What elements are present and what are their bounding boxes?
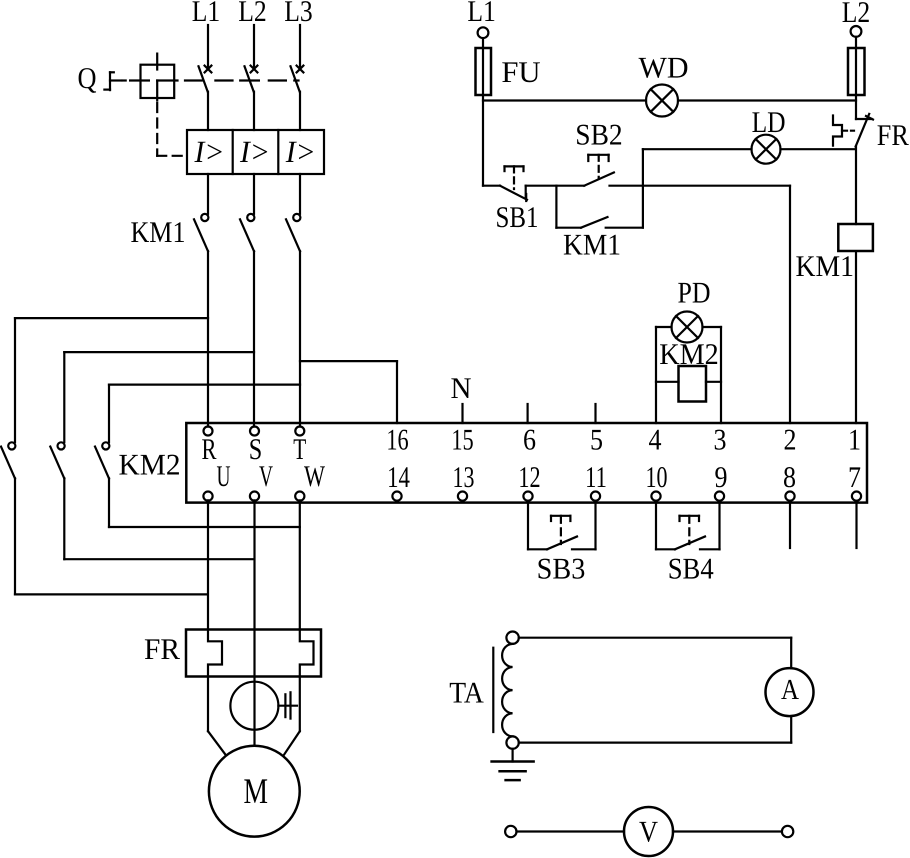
terminal 9 bbox=[715, 492, 724, 501]
terminal TA top bbox=[506, 632, 518, 644]
contactor KM2 contact 3 bbox=[95, 385, 109, 527]
wire stub below terminal 8 bbox=[789, 503, 791, 548]
wire terminal 2 riser bbox=[789, 186, 791, 423]
thermal relay FR heater element W bbox=[300, 630, 314, 677]
svg-text:16: 16 bbox=[386, 423, 408, 456]
contactor KM1 auxiliary contact (self-hold) bbox=[556, 149, 643, 228]
pushbutton SB3 bbox=[528, 503, 596, 550]
thermal relay FR heater element U bbox=[208, 630, 222, 677]
svg-text:I>: I> bbox=[194, 134, 225, 169]
wire terminal 1 riser bbox=[855, 251, 857, 423]
terminal U bbox=[203, 492, 212, 501]
wire branch T to terminal 16 bbox=[300, 361, 397, 423]
terminal block box bbox=[186, 423, 867, 503]
terminal voltmeter right bbox=[782, 826, 793, 837]
wire dashed mechanical link (across poles) bbox=[185, 79, 299, 81]
wire stub above terminal 5 bbox=[594, 404, 596, 423]
wire stub above terminal 6 bbox=[526, 404, 528, 423]
svg-text:15: 15 bbox=[451, 423, 473, 456]
wire loop C bottom (KM2 contact 3 to W) bbox=[109, 526, 300, 528]
thermal relay FR heater box bbox=[186, 630, 321, 677]
svg-text:1: 1 bbox=[848, 423, 861, 456]
wire L2 control drop bbox=[855, 37, 857, 119]
svg-text:14: 14 bbox=[387, 461, 410, 494]
svg-text:SB1: SB1 bbox=[496, 201, 539, 234]
svg-text:3: 3 bbox=[714, 423, 727, 456]
contactor KM2 contact 2 bbox=[50, 352, 64, 559]
wire TA top to ammeter bbox=[519, 638, 791, 668]
svg-text:V: V bbox=[639, 815, 658, 848]
pushbutton SB4 bbox=[656, 503, 720, 550]
current transformer ring on V wire bbox=[230, 682, 297, 730]
motor M bbox=[209, 746, 300, 837]
svg-text:KM1: KM1 bbox=[131, 216, 186, 249]
svg-text:5: 5 bbox=[590, 423, 603, 456]
contactor KM2 contact 1 bbox=[1, 318, 15, 594]
wire LD bus (right of LD) bbox=[781, 148, 856, 150]
wire voltmeter left bbox=[517, 830, 625, 832]
breaker Q handle symbol bbox=[104, 72, 121, 90]
svg-text:KM2: KM2 bbox=[119, 449, 181, 482]
wire loop C top (L3 tap to KM2 contact 3) bbox=[109, 384, 300, 386]
breaker Q pole 3 contact bbox=[291, 66, 304, 130]
wire loop B top (L2 tap to KM2 contact 2) bbox=[64, 351, 254, 353]
svg-text:L1: L1 bbox=[192, 0, 221, 28]
svg-text:KM1: KM1 bbox=[795, 250, 854, 283]
svg-text:M: M bbox=[244, 771, 269, 811]
voltmeter V bbox=[624, 807, 673, 856]
terminal voltmeter left bbox=[505, 826, 516, 837]
contactor KM1 main contact 1 bbox=[194, 214, 208, 427]
wire voltmeter right bbox=[673, 830, 782, 832]
wire W drop to FR heater bbox=[299, 500, 301, 629]
svg-text:4: 4 bbox=[649, 423, 662, 456]
svg-text:11: 11 bbox=[585, 461, 607, 494]
wire LD bus (left of LD) bbox=[643, 148, 752, 150]
wire PD/KM2 branch right (terminal 3) bbox=[703, 327, 722, 423]
pushbutton SB2 (NO) bbox=[584, 155, 614, 186]
svg-text:N: N bbox=[451, 372, 472, 405]
svg-text:TA: TA bbox=[449, 676, 484, 709]
svg-text:8: 8 bbox=[783, 461, 796, 494]
svg-text:2: 2 bbox=[784, 423, 797, 456]
svg-text:9: 9 bbox=[715, 461, 728, 494]
wire rail SB2 to terminal 2 riser bbox=[610, 185, 791, 187]
ground (TA secondary) bbox=[492, 749, 534, 780]
coil KM1 bbox=[838, 224, 873, 251]
terminal TA bottom bbox=[506, 736, 518, 748]
wire L2 drop bbox=[253, 25, 255, 69]
terminal 11 bbox=[591, 492, 600, 501]
terminal 13 bbox=[458, 492, 467, 501]
wire N stub to terminal 15 bbox=[461, 404, 463, 423]
wire top bus (right of WD) bbox=[678, 99, 856, 101]
terminal T bbox=[295, 427, 304, 436]
wire U to motor bbox=[208, 677, 226, 755]
lamp PD bbox=[672, 312, 703, 343]
terminal 7 bbox=[852, 492, 861, 501]
svg-text:13: 13 bbox=[453, 461, 475, 494]
wire I> box to KM1 contacts bbox=[208, 174, 300, 214]
contactor KM1 main contact 3 bbox=[286, 214, 300, 427]
terminal W bbox=[295, 492, 304, 501]
wire stub below terminal 7 bbox=[855, 503, 857, 548]
wire loop B bottom (KM2 contact 2 to V) bbox=[64, 558, 254, 560]
breaker Q mechanism box bbox=[130, 54, 177, 101]
wire W to motor bbox=[284, 677, 300, 755]
wire loop A bottom (KM2 contact 1 to U) bbox=[15, 593, 208, 595]
contactor KM1 main contact 2 bbox=[240, 214, 254, 427]
wire top bus (left of WD) bbox=[483, 99, 646, 101]
lamp WD bbox=[646, 85, 678, 117]
terminal R bbox=[204, 427, 213, 436]
terminal 12 bbox=[523, 492, 532, 501]
svg-text:I>: I> bbox=[239, 134, 270, 169]
svg-text:L2: L2 bbox=[238, 0, 267, 28]
fuse FU right bbox=[848, 48, 865, 95]
svg-text:SB4: SB4 bbox=[668, 552, 714, 585]
svg-text:L2: L2 bbox=[842, 0, 871, 29]
wire L1 control drop bbox=[482, 38, 484, 186]
svg-text:I>: I> bbox=[285, 134, 316, 169]
svg-text:FR: FR bbox=[144, 633, 180, 666]
svg-text:KM1: KM1 bbox=[563, 228, 621, 261]
coil KM2 bbox=[656, 366, 721, 402]
svg-text:FU: FU bbox=[501, 56, 541, 89]
breaker Q pole 1 contact bbox=[199, 66, 212, 130]
thermal relay FR contact (NC) bbox=[833, 114, 873, 147]
terminal 10 bbox=[651, 492, 660, 501]
svg-text:6: 6 bbox=[523, 423, 536, 456]
svg-text:7: 7 bbox=[848, 461, 861, 494]
wire TA bottom to ammeter bbox=[519, 716, 791, 742]
svg-text:Q: Q bbox=[78, 62, 97, 95]
terminal 8 bbox=[785, 492, 794, 501]
svg-text:A: A bbox=[781, 674, 799, 706]
wire PD/KM2 branch left (terminal 4) bbox=[656, 327, 672, 423]
svg-text:W: W bbox=[304, 460, 325, 493]
svg-text:12: 12 bbox=[518, 461, 540, 494]
wire dashed mechanical link (Q to thermal box) bbox=[123, 81, 186, 156]
lamp LD bbox=[752, 135, 781, 164]
svg-text:R: R bbox=[202, 433, 217, 466]
svg-text:10: 10 bbox=[646, 461, 668, 494]
wire rail SB1 to SB2 bbox=[526, 185, 585, 187]
wire L1 drop bbox=[207, 25, 209, 69]
wire loop A top (L1 tap to KM2 contact 1) bbox=[15, 317, 208, 319]
svg-text:SB3: SB3 bbox=[537, 552, 586, 585]
svg-text:FR: FR bbox=[877, 119, 909, 152]
terminal V bbox=[250, 492, 259, 501]
wire FR to KM1 coil bbox=[855, 147, 857, 225]
svg-text:V: V bbox=[259, 460, 273, 493]
pushbutton SB1 (NC) bbox=[483, 166, 527, 201]
overcurrent release box I> (3 cells) bbox=[187, 130, 324, 174]
ammeter A bbox=[766, 668, 814, 716]
terminal L2 (control) bbox=[851, 26, 862, 37]
wire L3 drop bbox=[299, 25, 301, 69]
terminal L1 (control) bbox=[478, 27, 489, 38]
svg-text:U: U bbox=[217, 460, 231, 493]
terminal 14 bbox=[392, 492, 401, 501]
breaker Q pole 2 contact bbox=[245, 66, 258, 130]
svg-text:SB2: SB2 bbox=[575, 118, 622, 151]
svg-text:L3: L3 bbox=[284, 0, 313, 28]
current transformer TA core bbox=[492, 648, 494, 732]
current transformer TA winding bbox=[502, 644, 513, 736]
wire V drop to motor bbox=[253, 500, 255, 745]
wire U drop to FR heater bbox=[207, 500, 209, 629]
svg-text:PD: PD bbox=[678, 276, 711, 309]
svg-text:WD: WD bbox=[639, 52, 689, 85]
svg-text:L1: L1 bbox=[467, 0, 496, 28]
fuse FU left bbox=[476, 48, 492, 95]
terminal S bbox=[250, 427, 259, 436]
